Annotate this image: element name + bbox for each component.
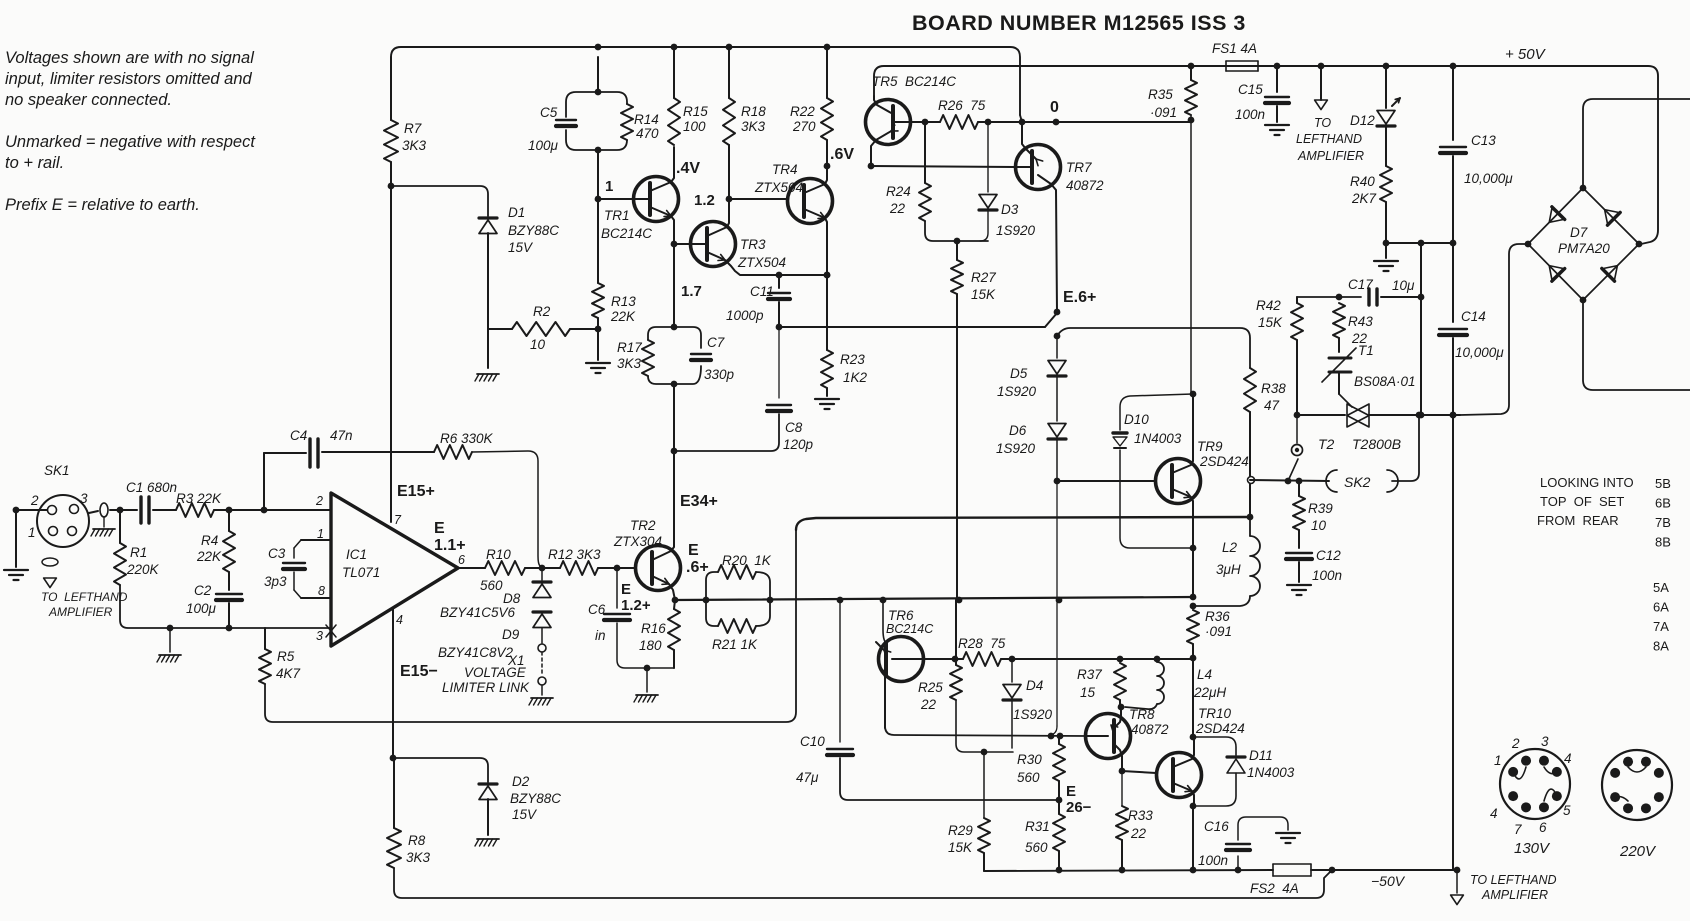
svg-text:LOOKING INTO: LOOKING INTO <box>1540 475 1634 490</box>
svg-text:220K: 220K <box>126 562 160 577</box>
svg-text:100μ: 100μ <box>528 138 559 153</box>
svg-text:R18: R18 <box>741 104 766 119</box>
svg-text:7A: 7A <box>1653 619 1669 634</box>
svg-text:1: 1 <box>1494 753 1502 768</box>
svg-text:100n: 100n <box>1198 853 1228 868</box>
svg-text:D10: D10 <box>1124 412 1149 427</box>
svg-text:15: 15 <box>1080 685 1096 700</box>
svg-text:LIMITER LINK: LIMITER LINK <box>442 680 530 695</box>
svg-text:TR8: TR8 <box>1129 707 1155 722</box>
svg-text:C4: C4 <box>290 428 307 443</box>
svg-text:−50V: −50V <box>1371 873 1406 889</box>
svg-text:R25: R25 <box>918 680 943 695</box>
svg-text:1: 1 <box>28 525 36 540</box>
svg-text:R17: R17 <box>617 340 642 355</box>
svg-text:47: 47 <box>1264 398 1280 413</box>
svg-text:R28 75: R28 75 <box>958 636 1006 651</box>
svg-text:Prefix E = relative to earth.: Prefix E = relative to earth. <box>5 196 200 214</box>
svg-text:R16: R16 <box>641 621 666 636</box>
svg-text:100n: 100n <box>1312 568 1342 583</box>
svg-text:2K7: 2K7 <box>1351 191 1377 206</box>
svg-text:C10: C10 <box>800 734 825 749</box>
svg-text:LEFTHAND: LEFTHAND <box>1296 132 1362 146</box>
svg-text:130V: 130V <box>1514 840 1551 857</box>
svg-text:R4: R4 <box>201 533 218 548</box>
svg-text:E15−: E15− <box>400 663 438 680</box>
svg-text:560: 560 <box>480 578 503 593</box>
svg-text:·091: ·091 <box>1205 624 1232 639</box>
svg-text:TR2: TR2 <box>630 518 656 533</box>
svg-text:D5: D5 <box>1010 366 1028 381</box>
svg-text:+ 50V: + 50V <box>1505 46 1547 63</box>
svg-text:E: E <box>621 581 631 598</box>
svg-text:15V: 15V <box>512 807 538 822</box>
svg-text:330p: 330p <box>704 367 735 382</box>
svg-text:2: 2 <box>30 493 39 508</box>
svg-text:2: 2 <box>1511 736 1520 751</box>
svg-text:2: 2 <box>315 494 323 508</box>
svg-text:22: 22 <box>889 201 906 216</box>
svg-text:E: E <box>1066 783 1076 800</box>
svg-text:470: 470 <box>636 126 659 141</box>
svg-text:4: 4 <box>396 613 403 627</box>
svg-text:8B: 8B <box>1655 535 1671 550</box>
svg-text:R29: R29 <box>948 823 973 838</box>
svg-text:D9: D9 <box>502 627 520 642</box>
svg-text:input, limiter resistors omitt: input, limiter resistors omitted and <box>5 70 253 88</box>
svg-text:·091: ·091 <box>1150 105 1177 120</box>
svg-text:BZY41C8V2: BZY41C8V2 <box>438 645 514 660</box>
svg-text:R22: R22 <box>790 104 815 119</box>
svg-text:1: 1 <box>605 178 613 195</box>
svg-text:T2800B: T2800B <box>1352 436 1401 452</box>
svg-text:TR5 BC214C: TR5 BC214C <box>872 74 956 89</box>
svg-text:in: in <box>595 628 606 643</box>
svg-text:15V: 15V <box>508 240 534 255</box>
svg-text:to + rail.: to + rail. <box>5 154 64 172</box>
svg-text:R31: R31 <box>1025 819 1050 834</box>
svg-text:BC214C: BC214C <box>601 226 652 241</box>
svg-text:2SD424: 2SD424 <box>1195 721 1245 736</box>
svg-text:560: 560 <box>1017 770 1040 785</box>
svg-text:R33: R33 <box>1128 808 1153 823</box>
svg-text:10: 10 <box>1311 518 1327 533</box>
svg-text:R36: R36 <box>1205 609 1230 624</box>
svg-text:D11: D11 <box>1249 748 1273 763</box>
svg-text:15K: 15K <box>1258 315 1283 330</box>
svg-text:6A: 6A <box>1653 600 1669 615</box>
svg-text:T1: T1 <box>1358 343 1374 358</box>
svg-text:3K3: 3K3 <box>402 138 427 153</box>
svg-text:1.2: 1.2 <box>694 192 715 209</box>
svg-text:3μH: 3μH <box>1216 562 1241 577</box>
svg-text:D1: D1 <box>508 205 525 220</box>
svg-text:AMPLIFIER: AMPLIFIER <box>48 605 113 619</box>
svg-text:3: 3 <box>1541 734 1549 749</box>
svg-text:TR7: TR7 <box>1066 160 1092 175</box>
svg-text:10: 10 <box>530 337 546 352</box>
svg-text:R37: R37 <box>1077 667 1102 682</box>
svg-text:E: E <box>434 520 445 537</box>
svg-text:7: 7 <box>394 513 402 527</box>
svg-text:R40: R40 <box>1350 174 1375 189</box>
svg-text:5A: 5A <box>1653 580 1669 595</box>
svg-text:TR3: TR3 <box>740 237 766 252</box>
svg-text:1N4003: 1N4003 <box>1247 765 1295 780</box>
svg-text:C14: C14 <box>1461 309 1486 324</box>
svg-text:ZTX504: ZTX504 <box>754 180 803 195</box>
svg-text:TO: TO <box>1314 116 1331 130</box>
svg-text:6B: 6B <box>1655 496 1671 511</box>
svg-text:E: E <box>688 542 699 559</box>
svg-text:BC214C: BC214C <box>886 622 934 636</box>
svg-text:220V: 220V <box>1619 843 1657 860</box>
svg-text:ZTX504: ZTX504 <box>737 255 786 270</box>
svg-text:E15+: E15+ <box>397 483 435 500</box>
svg-text:100μ: 100μ <box>186 601 217 616</box>
svg-text:TR1: TR1 <box>604 208 630 223</box>
svg-text:2SD424: 2SD424 <box>1199 454 1249 469</box>
svg-text:VOLTAGE: VOLTAGE <box>464 665 527 680</box>
svg-text:TR10: TR10 <box>1198 706 1232 721</box>
svg-text:D3: D3 <box>1001 202 1019 217</box>
svg-text:R24: R24 <box>886 184 911 199</box>
svg-text:1S920: 1S920 <box>996 223 1036 238</box>
svg-text:TR9: TR9 <box>1197 439 1223 454</box>
svg-text:R23: R23 <box>840 352 865 367</box>
svg-text:FS1 4A: FS1 4A <box>1212 41 1257 56</box>
svg-text:SK2: SK2 <box>1344 474 1371 490</box>
svg-text:R30: R30 <box>1017 752 1042 767</box>
svg-text:C8: C8 <box>785 420 803 435</box>
svg-text:40872: 40872 <box>1131 722 1169 737</box>
svg-text:C3: C3 <box>268 546 286 561</box>
svg-text:AMPLIFIER: AMPLIFIER <box>1297 149 1364 163</box>
svg-text:TO LEFTHAND: TO LEFTHAND <box>1470 873 1557 887</box>
svg-text:D8: D8 <box>503 591 521 606</box>
svg-text:3K3: 3K3 <box>406 850 431 865</box>
svg-text:R15: R15 <box>683 104 708 119</box>
svg-text:10,000μ: 10,000μ <box>1455 345 1504 360</box>
svg-text:40872: 40872 <box>1066 178 1104 193</box>
svg-text:8: 8 <box>318 584 325 598</box>
svg-text:.6V: .6V <box>830 146 854 163</box>
svg-text:D2: D2 <box>512 774 530 789</box>
svg-text:R42: R42 <box>1256 298 1281 313</box>
svg-text:47n: 47n <box>330 428 353 443</box>
svg-text:1N4003: 1N4003 <box>1134 431 1182 446</box>
svg-text:R6 330K: R6 330K <box>440 431 494 446</box>
svg-text:R1: R1 <box>130 545 147 560</box>
svg-text:3K3: 3K3 <box>617 356 642 371</box>
svg-text:4K7: 4K7 <box>276 666 301 681</box>
svg-text:.4V: .4V <box>676 160 700 177</box>
svg-text:22μH: 22μH <box>1193 685 1226 700</box>
svg-text:R20 1K: R20 1K <box>722 553 772 568</box>
svg-text:R43: R43 <box>1348 314 1373 329</box>
svg-text:1: 1 <box>317 527 324 541</box>
svg-text:R21 1K: R21 1K <box>712 637 758 652</box>
svg-text:7: 7 <box>1514 822 1522 837</box>
svg-text:R8: R8 <box>408 833 426 848</box>
svg-text:C2: C2 <box>194 583 212 598</box>
svg-text:TR6: TR6 <box>888 608 914 623</box>
svg-text:C7: C7 <box>707 335 725 350</box>
svg-text:D6: D6 <box>1009 423 1027 438</box>
svg-text:R7: R7 <box>404 121 422 136</box>
svg-text:C6: C6 <box>588 602 606 617</box>
svg-text:22: 22 <box>920 697 937 712</box>
svg-text:5: 5 <box>1563 803 1571 818</box>
svg-text:4: 4 <box>1490 806 1498 821</box>
svg-text:Voltages shown are with no sig: Voltages shown are with no signal <box>5 49 255 67</box>
svg-text:3: 3 <box>80 491 88 506</box>
svg-text:TOP OF SET: TOP OF SET <box>1540 494 1624 509</box>
svg-text:15K: 15K <box>948 840 973 855</box>
svg-text:0: 0 <box>1050 99 1059 116</box>
svg-text:1S920: 1S920 <box>997 384 1037 399</box>
svg-text:no speaker connected.: no speaker connected. <box>5 91 172 109</box>
svg-text:D4: D4 <box>1026 678 1043 693</box>
svg-text:1S920: 1S920 <box>996 441 1036 456</box>
svg-text:R35: R35 <box>1148 87 1173 102</box>
svg-text:TR4: TR4 <box>772 162 798 177</box>
svg-text:C11: C11 <box>750 284 774 299</box>
svg-text:BZY41C5V6: BZY41C5V6 <box>440 605 516 620</box>
svg-text:3: 3 <box>316 629 323 643</box>
svg-text:R12 3K3: R12 3K3 <box>548 547 601 562</box>
svg-text:AMPLIFIER: AMPLIFIER <box>1481 888 1548 902</box>
svg-text:5B: 5B <box>1655 476 1671 491</box>
svg-text:TL071: TL071 <box>342 565 380 580</box>
svg-text:10μ: 10μ <box>1392 278 1415 293</box>
svg-text:8A: 8A <box>1653 639 1669 654</box>
svg-text:TO LEFTHAND: TO LEFTHAND <box>41 590 128 604</box>
svg-text:R10: R10 <box>486 547 511 562</box>
svg-text:3p3: 3p3 <box>264 574 287 589</box>
svg-text:C15: C15 <box>1238 82 1263 97</box>
svg-text:100n: 100n <box>1235 107 1265 122</box>
svg-text:BZY88C: BZY88C <box>510 791 561 806</box>
svg-text:7B: 7B <box>1655 515 1671 530</box>
svg-text:120p: 120p <box>783 437 814 452</box>
svg-text:270: 270 <box>792 119 816 134</box>
svg-text:1000p: 1000p <box>726 308 764 323</box>
svg-text:E34+: E34+ <box>680 493 718 510</box>
svg-text:C12: C12 <box>1316 548 1341 563</box>
svg-text:BOARD NUMBER M12565 ISS 3: BOARD NUMBER M12565 ISS 3 <box>912 11 1246 35</box>
svg-text:C1 680n: C1 680n <box>126 480 177 495</box>
svg-text:BZY88C: BZY88C <box>508 223 559 238</box>
svg-text:PM7A20: PM7A20 <box>1558 241 1610 256</box>
svg-text:D12: D12 <box>1350 113 1375 128</box>
svg-text:47μ: 47μ <box>796 770 819 785</box>
svg-text:C5: C5 <box>540 105 558 120</box>
svg-text:10,000μ: 10,000μ <box>1464 171 1513 186</box>
svg-text:1.1+: 1.1+ <box>434 537 466 554</box>
svg-text:D7: D7 <box>1570 225 1588 240</box>
svg-text:6: 6 <box>458 553 465 567</box>
svg-text:6: 6 <box>1539 820 1547 835</box>
svg-text:R2: R2 <box>533 304 551 319</box>
svg-text:1.7: 1.7 <box>681 283 702 300</box>
svg-text:26−: 26− <box>1066 799 1092 816</box>
svg-text:.6+: .6+ <box>686 559 709 576</box>
svg-text:R13: R13 <box>611 294 636 309</box>
svg-text:R38: R38 <box>1261 381 1286 396</box>
svg-text:C13: C13 <box>1471 133 1496 148</box>
svg-text:R26 75: R26 75 <box>938 98 986 113</box>
svg-text:R39: R39 <box>1308 501 1333 516</box>
svg-text:R27: R27 <box>971 270 996 285</box>
svg-text:100: 100 <box>683 119 706 134</box>
svg-text:22K: 22K <box>610 309 636 324</box>
svg-text:R3 22K: R3 22K <box>176 491 222 506</box>
svg-text:IC1: IC1 <box>346 547 367 562</box>
svg-text:180: 180 <box>639 638 662 653</box>
svg-text:R5: R5 <box>277 649 295 664</box>
svg-text:FROM REAR: FROM REAR <box>1537 513 1619 528</box>
svg-text:L2: L2 <box>1222 540 1238 555</box>
svg-text:22: 22 <box>1130 826 1147 841</box>
svg-text:FS2 4A: FS2 4A <box>1250 881 1299 896</box>
svg-text:4: 4 <box>1564 751 1572 766</box>
svg-text:E.6+: E.6+ <box>1063 289 1096 306</box>
svg-text:15K: 15K <box>971 287 996 302</box>
svg-text:1K2: 1K2 <box>843 370 868 385</box>
svg-text:L4: L4 <box>1197 667 1212 682</box>
svg-text:560: 560 <box>1025 840 1048 855</box>
svg-text:R14: R14 <box>634 112 659 127</box>
svg-text:3K3: 3K3 <box>741 119 766 134</box>
svg-text:1.2+: 1.2+ <box>621 597 651 614</box>
svg-text:Unmarked = negative with respe: Unmarked = negative with respect <box>5 133 256 151</box>
svg-text:ZTX304: ZTX304 <box>613 534 662 549</box>
svg-text:SK1: SK1 <box>44 463 70 478</box>
svg-text:C16: C16 <box>1204 819 1229 834</box>
svg-text:BS08A·01: BS08A·01 <box>1354 374 1416 389</box>
svg-text:T2: T2 <box>1318 436 1335 452</box>
svg-text:1S920: 1S920 <box>1013 707 1053 722</box>
svg-text:C17: C17 <box>1348 277 1373 292</box>
svg-text:22K: 22K <box>196 549 222 564</box>
